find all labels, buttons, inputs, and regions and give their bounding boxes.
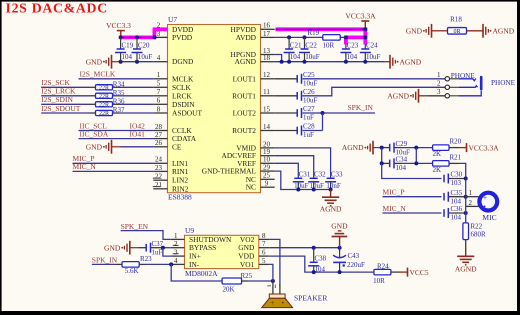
- svg-text:6: 6: [157, 97, 161, 105]
- svg-text:U7: U7: [168, 15, 177, 24]
- wire BYPASS: [163, 247, 171, 249]
- svg-text:9: 9: [265, 180, 269, 188]
- wire to chip: [119, 86, 153, 88]
- svg-text:8: 8: [157, 105, 161, 113]
- wire ADCVREF to C32: [275, 156, 314, 179]
- svg-text:680R: 680R: [471, 230, 487, 238]
- svg-text:8: 8: [262, 232, 266, 240]
- wire MIC_N to pin 23: [73, 170, 154, 172]
- microphone MIC: [466, 189, 497, 222]
- wire R20-R21 tie: [415, 148, 417, 164]
- svg-text:GND: GND: [406, 26, 423, 35]
- svg-text:C34: C34: [396, 156, 408, 164]
- svg-text:C28: C28: [303, 123, 315, 131]
- svg-text:10uF: 10uF: [305, 53, 320, 61]
- svg-text:AGND: AGND: [387, 91, 409, 100]
- svg-text:18: 18: [263, 54, 271, 62]
- capacitor C33 10nF: [325, 170, 343, 190]
- svg-text:C43: C43: [348, 252, 360, 260]
- IC U9 MD8002A: [171, 226, 269, 278]
- svg-text:+: +: [270, 299, 274, 307]
- svg-text:CE: CE: [172, 142, 182, 151]
- svg-text:NC: NC: [246, 183, 256, 192]
- svg-text:SPK_EN: SPK_EN: [121, 222, 149, 231]
- resistor R35 22R: [90, 89, 125, 100]
- svg-text:PVDD: PVDD: [172, 33, 193, 42]
- wire SPK_IN: [92, 263, 116, 265]
- svg-text:3: 3: [437, 88, 441, 96]
- wire R23 to IN-: [146, 263, 171, 265]
- svg-text:DGND: DGND: [172, 57, 194, 66]
- svg-text:I2S DAC&ADC: I2S DAC&ADC: [6, 0, 108, 15]
- svg-text:AVDD: AVDD: [236, 33, 257, 42]
- wire ROUT2 out: [303, 130, 323, 132]
- svg-text:MIC_P: MIC_P: [383, 188, 405, 197]
- capacitor C20 10uF: [132, 37, 153, 61]
- svg-text:SPK_IN: SPK_IN: [92, 255, 118, 264]
- ground GND at C37: [104, 241, 138, 255]
- svg-text:10R: 10R: [323, 41, 335, 49]
- svg-text:20K: 20K: [223, 286, 235, 294]
- svg-text:LOUT2: LOUT2: [233, 109, 257, 118]
- capacitor C43 220uF polarized: [333, 248, 365, 272]
- capacitor C37 1uF: [139, 240, 164, 257]
- svg-text:1uF: 1uF: [303, 114, 314, 122]
- svg-text:16: 16: [263, 22, 271, 30]
- svg-text:C22: C22: [305, 41, 317, 49]
- wire to chip: [119, 112, 153, 114]
- wire I2S_SDOUT: [41, 112, 89, 114]
- svg-text:29: 29: [263, 164, 271, 172]
- svg-text:C27: C27: [303, 105, 315, 113]
- svg-text:C26: C26: [303, 88, 315, 96]
- wire: [401, 162, 432, 164]
- svg-text:17: 17: [263, 30, 271, 38]
- svg-text:15: 15: [263, 105, 271, 113]
- wire mic node vertical: [465, 179, 467, 223]
- svg-text:5: 5: [262, 257, 266, 265]
- svg-text:1: 1: [437, 71, 441, 79]
- svg-text:6: 6: [262, 249, 266, 257]
- ground AGND mic section: [342, 141, 382, 155]
- svg-text:104: 104: [122, 53, 133, 61]
- svg-text:R25: R25: [241, 272, 253, 280]
- svg-text:AGND: AGND: [342, 143, 364, 152]
- svg-text:28: 28: [155, 123, 163, 131]
- resistor R37 22R: [90, 106, 125, 117]
- svg-text:104: 104: [396, 164, 407, 172]
- resistor R25 20K: [222, 272, 253, 294]
- power bus VCC3.3 to pins 2,3: [121, 29, 168, 37]
- svg-text:U9: U9: [185, 226, 194, 235]
- wire tie C27-C28: [322, 113, 324, 131]
- svg-text:11: 11: [263, 88, 270, 96]
- svg-text:GND: GND: [331, 222, 348, 231]
- svg-text:27: 27: [155, 131, 163, 139]
- speaker SPEAKER: [262, 281, 328, 308]
- svg-text:4: 4: [157, 54, 161, 62]
- svg-text:12: 12: [263, 71, 271, 79]
- svg-text:RIN1: RIN1: [172, 167, 189, 176]
- wire I2S_SCK: [41, 86, 89, 88]
- svg-text:10R: 10R: [373, 277, 385, 285]
- svg-text:R21: R21: [450, 153, 462, 161]
- svg-text:104: 104: [451, 214, 462, 222]
- svg-text:1uF: 1uF: [152, 249, 163, 257]
- wire IN- feedback: [171, 264, 222, 281]
- svg-text:1: 1: [157, 71, 161, 79]
- capacitor C34 104: [382, 156, 408, 173]
- resistor R24 10R: [373, 262, 399, 285]
- svg-text:ASDOUT: ASDOUT: [172, 109, 202, 118]
- svg-text:C29: C29: [396, 140, 408, 148]
- wire CE to ground: [121, 146, 154, 148]
- svg-text:0R: 0R: [453, 29, 460, 35]
- wire SPK_EN to SHUTDOWN: [121, 231, 171, 240]
- svg-text:22R: 22R: [99, 103, 109, 109]
- svg-text:VCC3.3A: VCC3.3A: [469, 143, 500, 152]
- svg-text:SPK_IN: SPK_IN: [348, 103, 374, 112]
- resistor R36 22R: [90, 97, 125, 108]
- junction: [287, 35, 291, 39]
- wire GND net: [269, 247, 339, 249]
- svg-text:10uF: 10uF: [366, 53, 381, 61]
- svg-text:3: 3: [174, 249, 178, 257]
- svg-text:10uF: 10uF: [303, 97, 318, 105]
- svg-text:C36: C36: [451, 205, 463, 213]
- svg-text:22R: 22R: [99, 111, 109, 117]
- svg-text:2K: 2K: [433, 166, 442, 174]
- svg-text:10uF: 10uF: [294, 182, 309, 190]
- resistor R19 10R: [308, 29, 346, 49]
- capacitor C21 104: [284, 37, 302, 61]
- svg-text:26: 26: [155, 139, 163, 147]
- junction: [464, 195, 468, 199]
- svg-text:MIC_N: MIC_N: [73, 162, 97, 171]
- wire R21 to mic node: [459, 163, 466, 178]
- svg-text:C19: C19: [122, 41, 134, 49]
- svg-text:AGND: AGND: [235, 57, 257, 66]
- svg-text:GND: GND: [104, 243, 121, 252]
- svg-text:VCC3.3A: VCC3.3A: [345, 12, 376, 21]
- capacitor C32 10uF: [308, 170, 326, 190]
- svg-text:R24: R24: [377, 262, 389, 270]
- connector PHONE jack: [437, 71, 516, 98]
- svg-text:10nF: 10nF: [326, 182, 341, 190]
- resistor R21 2K: [433, 153, 462, 174]
- svg-text:GND: GND: [86, 142, 103, 151]
- svg-text:7: 7: [262, 240, 266, 248]
- svg-text:SPEAKER: SPEAKER: [294, 294, 327, 303]
- svg-text:AGND: AGND: [400, 57, 422, 66]
- junction: [464, 177, 468, 181]
- svg-text:7: 7: [157, 88, 161, 96]
- svg-text:R20: R20: [450, 138, 462, 146]
- svg-text:MIC: MIC: [482, 213, 496, 222]
- ground GND above C43: [331, 222, 348, 248]
- svg-text:10uF: 10uF: [310, 182, 325, 190]
- ground AGND at jack: [387, 89, 445, 103]
- svg-text:AGND: AGND: [320, 205, 342, 214]
- capacitor C35 104: [444, 189, 466, 206]
- ground GND at DGND: [86, 55, 121, 69]
- capacitor C29 10uF: [382, 140, 410, 157]
- svg-text:AGND: AGND: [455, 265, 477, 274]
- svg-text:2K: 2K: [433, 150, 442, 158]
- junction: [312, 270, 316, 274]
- svg-text:IIC_SDA: IIC_SDA: [80, 129, 109, 138]
- svg-text:10uF: 10uF: [138, 53, 153, 61]
- wire GND-THERMAL rail: [275, 171, 331, 189]
- capacitor C36 104: [444, 205, 466, 222]
- wire R25 to VO1 node: [248, 280, 273, 282]
- power port VCC3.3A: [345, 12, 376, 30]
- wire AGND drop: [381, 148, 383, 164]
- svg-text:R19: R19: [308, 29, 320, 37]
- wire MIC_P to pin 24: [73, 162, 154, 164]
- ground AGND below C33: [320, 190, 342, 214]
- svg-text:DSDIN: DSDIN: [172, 100, 195, 109]
- svg-text:C33: C33: [331, 170, 343, 178]
- svg-text:10uF: 10uF: [303, 80, 318, 88]
- svg-text:4: 4: [174, 257, 178, 265]
- junction: [280, 60, 284, 64]
- wire: [401, 147, 432, 149]
- svg-text:IO41: IO41: [130, 129, 146, 138]
- svg-text:I2S_SDOUT: I2S_SDOUT: [41, 104, 81, 113]
- svg-text:R23: R23: [140, 255, 152, 263]
- junction: [271, 279, 275, 283]
- wire IIC_SDA to pin 27: [79, 138, 154, 140]
- capacitor C25 10uF: [275, 71, 318, 88]
- svg-text:C35: C35: [451, 189, 463, 197]
- svg-text:22: 22: [155, 173, 163, 181]
- svg-text:VCC5: VCC5: [410, 268, 429, 277]
- capacitor C27 1uF: [275, 105, 315, 122]
- ground GND with R18 0R to AGND: [406, 16, 515, 38]
- svg-text:C32: C32: [314, 170, 326, 178]
- wire AGND rail: [275, 61, 384, 63]
- wire VO2 to speaker: [269, 239, 280, 285]
- junction: [321, 111, 325, 115]
- svg-text:VCC3.3: VCC3.3: [106, 21, 131, 30]
- junction: [119, 60, 123, 64]
- svg-text:5.6K: 5.6K: [125, 267, 139, 275]
- junction: [380, 146, 384, 150]
- svg-text:23: 23: [155, 164, 163, 172]
- svg-text:104: 104: [347, 53, 358, 61]
- wire VMID to C33: [275, 148, 331, 178]
- wire VREF to C31: [275, 163, 299, 178]
- svg-text:24: 24: [155, 156, 163, 164]
- wire MIC_P to C35: [383, 196, 442, 198]
- svg-text:22R: 22R: [99, 94, 109, 100]
- wire BYPASS to IN+: [163, 248, 171, 256]
- svg-text:1: 1: [174, 232, 178, 240]
- svg-text:C30: C30: [451, 171, 463, 179]
- wire VO1 to speaker: [269, 264, 273, 282]
- svg-text:+: +: [483, 193, 487, 202]
- svg-text:2: 2: [469, 199, 473, 207]
- capacitor C30 103: [444, 171, 466, 188]
- junction: [464, 211, 468, 215]
- svg-text:RIN2: RIN2: [172, 184, 189, 193]
- wire LOUT2 out: [303, 112, 376, 114]
- svg-text:VO1: VO1: [240, 260, 255, 269]
- border frame: [0, 0, 520, 2]
- IC U7 ES8388: [153, 15, 275, 202]
- svg-text:I2S_MCLK: I2S_MCLK: [80, 70, 116, 79]
- svg-text:104: 104: [290, 53, 301, 61]
- svg-text:C25: C25: [303, 71, 315, 79]
- ground AGND below R22: [455, 247, 477, 274]
- svg-text:10: 10: [263, 156, 271, 164]
- wire AGND to C30: [382, 163, 442, 178]
- svg-text:C20: C20: [138, 41, 150, 49]
- wire DGND rail: [121, 61, 154, 63]
- svg-text:5: 5: [157, 80, 161, 88]
- svg-text:2: 2: [437, 80, 441, 88]
- capacitor C31 10uF: [293, 170, 311, 190]
- junction: [380, 161, 384, 165]
- wire ROUT1 to jack ring: [303, 87, 446, 96]
- resistor R22 680R: [463, 222, 486, 247]
- svg-text:R18: R18: [450, 16, 462, 24]
- ground AGND top right: [384, 55, 422, 69]
- svg-text:IN-: IN-: [189, 260, 200, 269]
- wire VDD net: [269, 256, 374, 272]
- junction: [312, 246, 316, 250]
- svg-text:103: 103: [451, 179, 462, 187]
- wire to chip: [119, 103, 153, 105]
- wire AVDD to R19: [275, 36, 323, 38]
- power port VCC5: [399, 268, 429, 277]
- svg-text:LOUT1: LOUT1: [233, 74, 257, 83]
- svg-text:C21: C21: [290, 41, 302, 49]
- resistor R23 5.6K: [116, 255, 152, 275]
- svg-text:MD8002A: MD8002A: [185, 269, 218, 278]
- svg-text:C31: C31: [299, 170, 311, 178]
- power port VCC3.3: [106, 21, 131, 38]
- power bus VCC3.3A HPVDD/AVDD: [276, 29, 368, 44]
- svg-text:MIC_N: MIC_N: [383, 204, 407, 213]
- wire I2S_SDIN: [41, 103, 89, 105]
- capacitor C24 10uF: [360, 41, 381, 61]
- svg-text:ROUT1: ROUT1: [232, 91, 256, 100]
- svg-text:1uF: 1uF: [303, 131, 314, 139]
- svg-text:C24: C24: [366, 41, 378, 49]
- junction: [296, 188, 300, 192]
- svg-text:PHONE: PHONE: [491, 79, 516, 87]
- svg-text:14: 14: [263, 123, 271, 131]
- power port VCC3.3A right: [459, 143, 500, 152]
- ground GND at CE: [86, 140, 121, 154]
- capacitor C22 10uF: [299, 37, 320, 61]
- wire to chip: [119, 95, 153, 97]
- wire I2S_LRCK: [41, 95, 89, 97]
- svg-text:ROUT2: ROUT2: [232, 126, 256, 135]
- capacitor C38 104: [308, 248, 326, 274]
- svg-text:AGND: AGND: [493, 26, 515, 35]
- svg-text:C38: C38: [315, 254, 327, 262]
- wire HPGND jog: [275, 55, 282, 62]
- junction: [169, 262, 173, 266]
- capacitor C28 1uF: [275, 123, 315, 140]
- svg-text:2: 2: [174, 240, 178, 248]
- svg-text:R22: R22: [471, 222, 483, 230]
- svg-text:25: 25: [263, 172, 271, 180]
- svg-text:ES8388: ES8388: [168, 193, 192, 202]
- capacitor C19 104: [115, 37, 134, 61]
- wire MIC_N to C36: [383, 212, 442, 214]
- svg-text:220uF: 220uF: [347, 261, 365, 269]
- svg-text:GND: GND: [86, 57, 103, 66]
- svg-text:22R: 22R: [99, 86, 109, 92]
- svg-text:1: 1: [469, 189, 473, 197]
- wire I2S_MCLK to pin 1: [79, 78, 154, 80]
- wire IIC_SCL to pin 28: [79, 130, 154, 132]
- junction: [161, 246, 165, 250]
- capacitor C26 10uF: [275, 88, 318, 105]
- svg-text:I2S_SDIN: I2S_SDIN: [41, 95, 73, 104]
- svg-text:C23: C23: [347, 41, 359, 49]
- svg-text:21: 21: [155, 181, 163, 189]
- capacitor C23 104: [340, 41, 358, 61]
- junction: [363, 27, 367, 31]
- resistor R20 2K: [433, 138, 462, 159]
- svg-text:20: 20: [263, 140, 271, 148]
- junction: [119, 35, 123, 39]
- resistor R34 22R: [90, 80, 125, 91]
- wire LOUT1 to jack tip: [303, 78, 446, 80]
